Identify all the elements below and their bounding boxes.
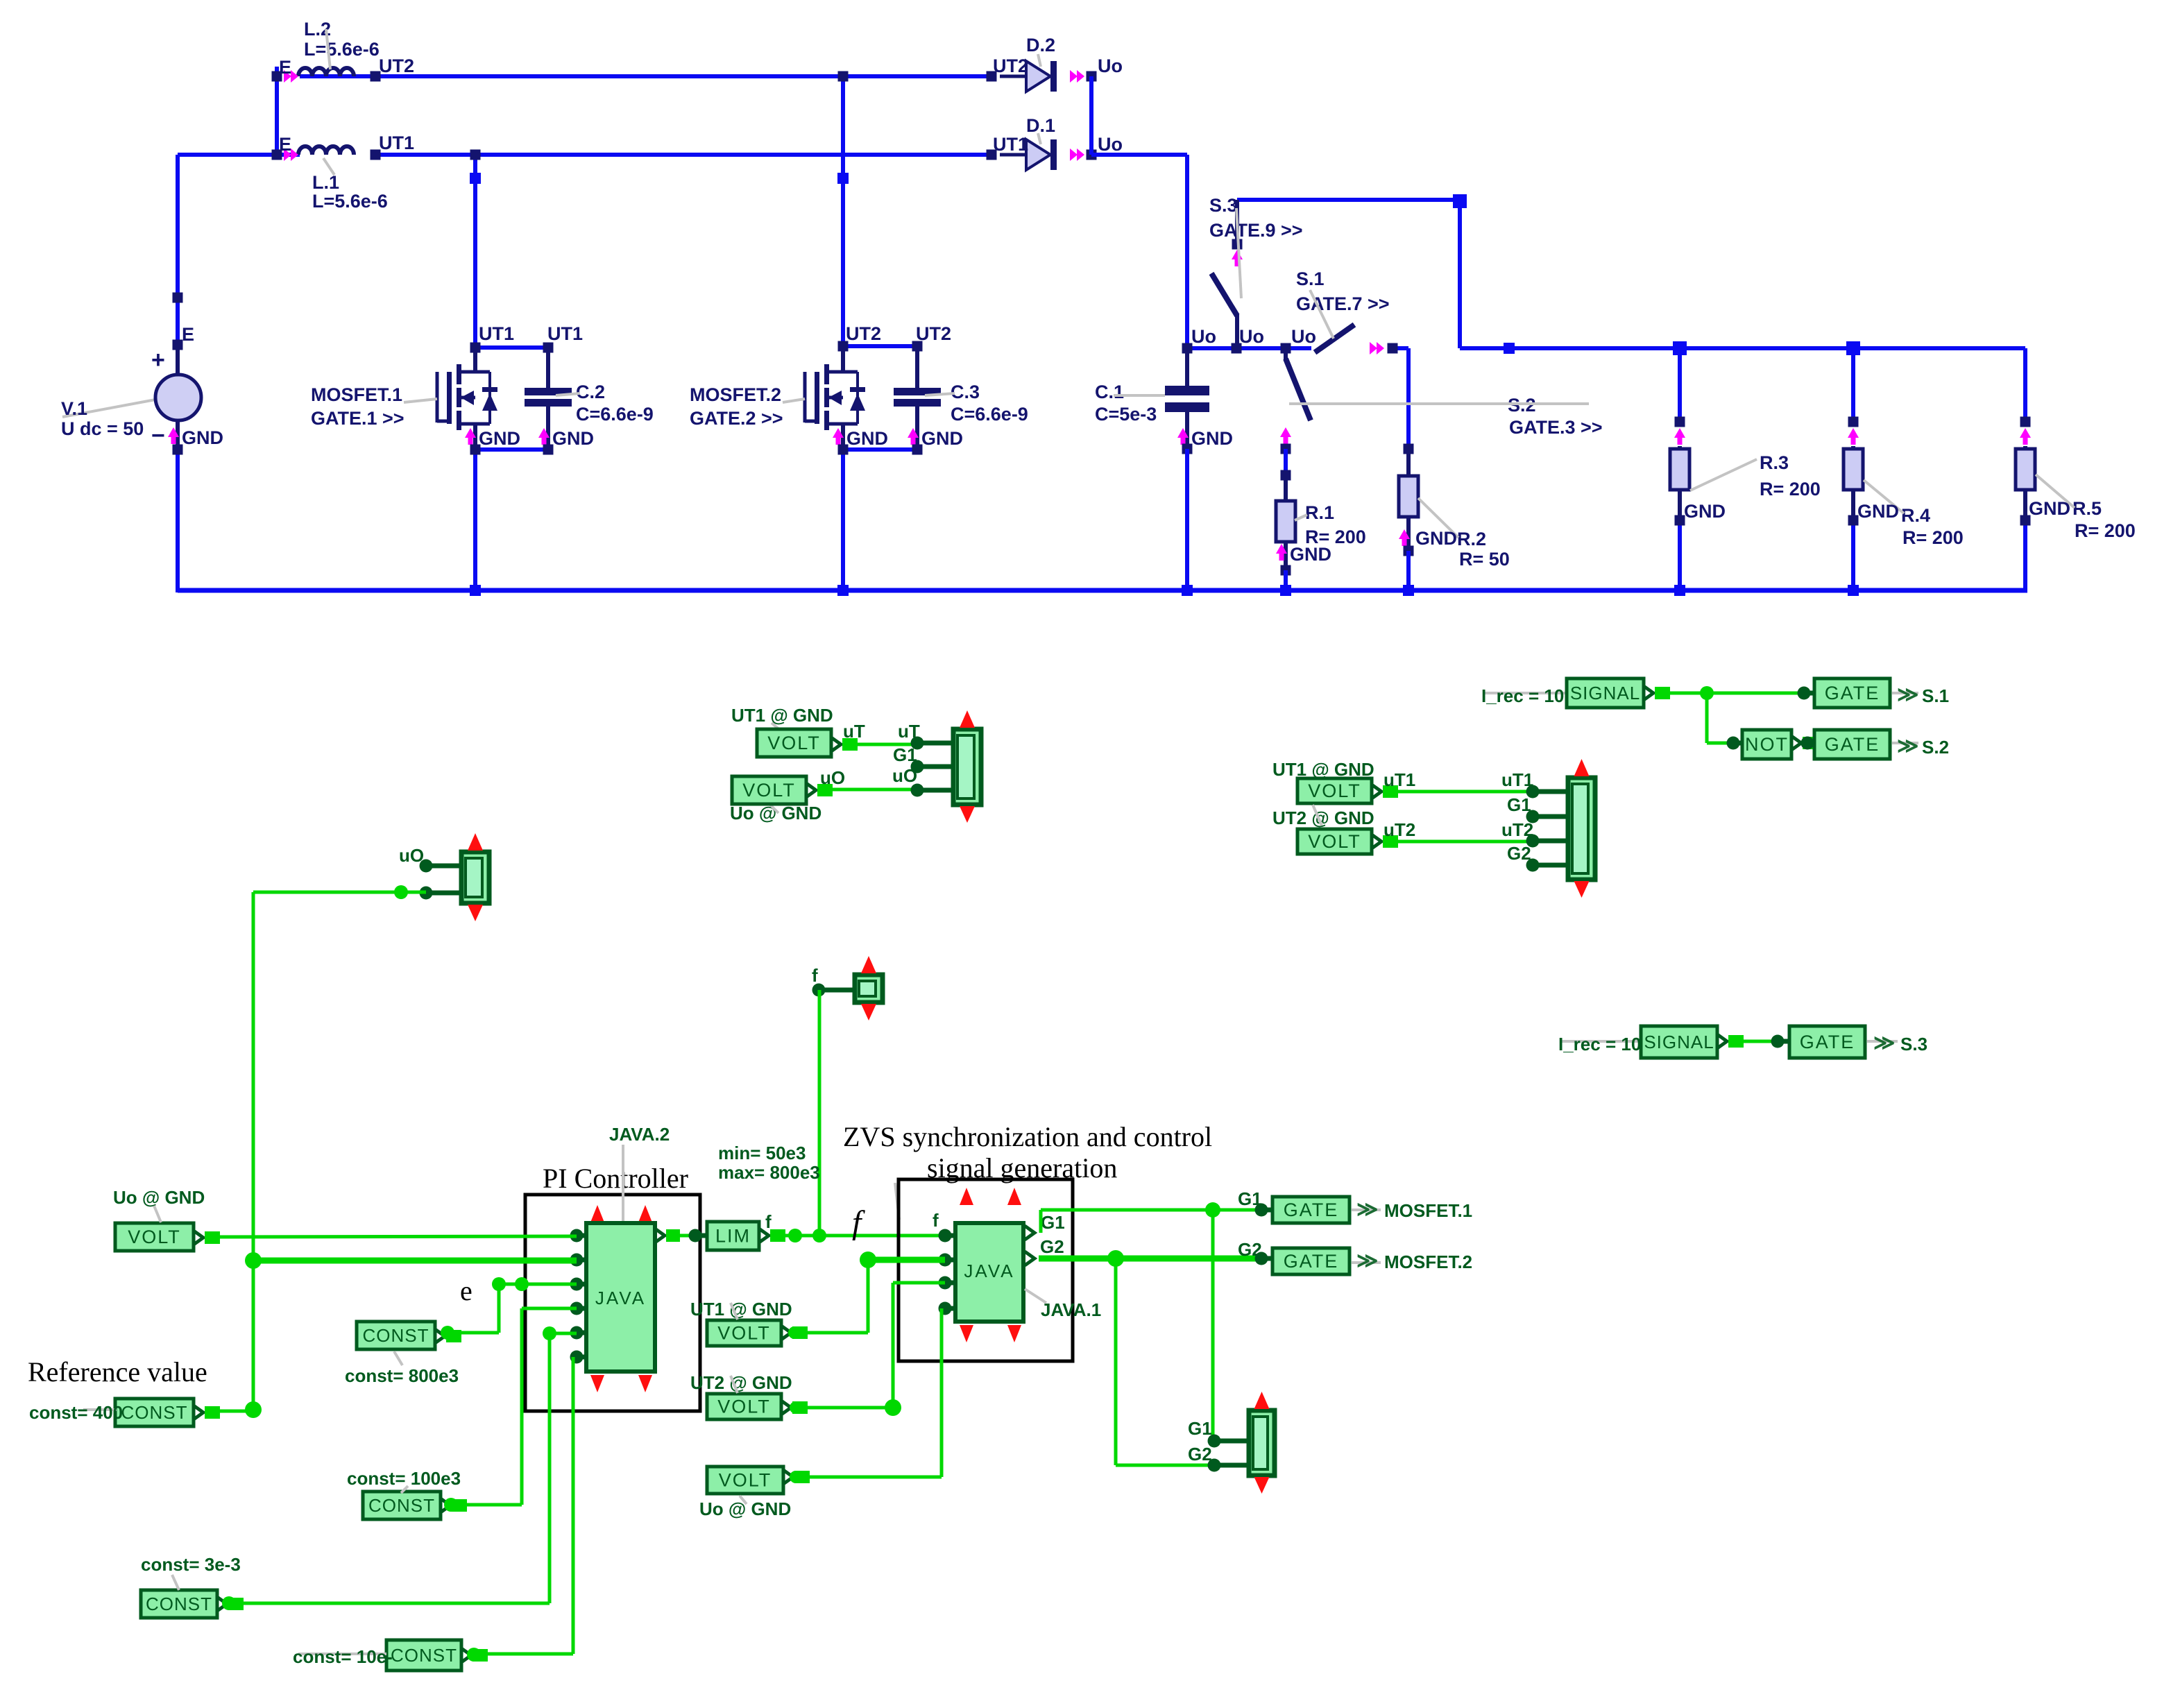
mosfet M2 bbox=[690, 323, 951, 450]
svg-text:I_rec = 10: I_rec = 10 bbox=[1481, 685, 1564, 706]
label to MOSFET2 bbox=[1352, 1249, 1472, 1272]
svg-text:L.1: L.1 bbox=[312, 172, 339, 193]
magenta R5 bbox=[2020, 428, 2031, 445]
ground M1 bbox=[465, 428, 520, 449]
node uO p2 bbox=[420, 887, 462, 900]
svg-text:R.4: R.4 bbox=[1901, 505, 1930, 526]
wire R5 top bbox=[2023, 348, 2027, 422]
node R3 upper bbox=[1675, 417, 1685, 427]
gate block S3 bbox=[1789, 1026, 1865, 1058]
node gate2 in bbox=[1255, 1252, 1273, 1265]
svg-text:L=5.6e-6: L=5.6e-6 bbox=[304, 39, 380, 60]
wire pin4 bbox=[448, 1308, 577, 1505]
wire volt uo out bbox=[783, 1470, 810, 1484]
const block 800e3 bbox=[357, 1322, 435, 1349]
java2 out bbox=[655, 1229, 680, 1242]
node C2 top bbox=[543, 343, 554, 353]
svg-text:UT2 @ GND: UT2 @ GND bbox=[690, 1372, 792, 1393]
scope f bbox=[855, 956, 883, 1020]
node gate S1 in bbox=[1798, 687, 1815, 700]
svg-text:Uo: Uo bbox=[1291, 326, 1316, 347]
label const 3e-3 bbox=[141, 1554, 241, 1590]
svg-text:MOSFET.2: MOSFET.2 bbox=[690, 384, 781, 405]
gate block M2 bbox=[1272, 1248, 1350, 1274]
svg-text:R.2: R.2 bbox=[1457, 529, 1486, 549]
label Uo@GND top bbox=[730, 803, 821, 823]
wire const800 out bbox=[435, 1326, 461, 1343]
node f scope port bbox=[812, 984, 855, 997]
ground R4 bbox=[1857, 501, 1899, 522]
svg-text:≫: ≫ bbox=[1356, 1249, 1378, 1272]
diode D2 bbox=[987, 35, 1123, 92]
label e bbox=[460, 1275, 472, 1306]
svg-text:−: − bbox=[151, 422, 165, 449]
svg-text:Reference value: Reference value bbox=[28, 1356, 207, 1387]
svg-text:UT1: UT1 bbox=[547, 323, 583, 344]
svg-text:MOSFET.1: MOSFET.1 bbox=[1384, 1200, 1472, 1221]
magenta R4 bbox=[1848, 428, 1859, 445]
ground C2 bbox=[538, 428, 594, 449]
node C3 bot bbox=[912, 445, 923, 455]
gate block S2 bbox=[1814, 730, 1890, 759]
svg-text:GATE.1 >>: GATE.1 >> bbox=[311, 408, 405, 429]
wire S2-R1 bbox=[1284, 449, 1288, 475]
node R2 bot bbox=[1404, 546, 1414, 556]
svg-text:E: E bbox=[182, 324, 194, 345]
label R5 bbox=[2036, 475, 2136, 541]
svg-text:GND: GND bbox=[2029, 498, 2070, 519]
svg-text:≫: ≫ bbox=[1897, 683, 1918, 706]
svg-text:R.5: R.5 bbox=[2072, 498, 2102, 519]
svg-text:CONST: CONST bbox=[363, 1325, 429, 1346]
node G1 port top bbox=[893, 744, 953, 774]
svg-text:G1: G1 bbox=[1507, 794, 1531, 815]
signal block S3 bbox=[1641, 1026, 1717, 1058]
label to S1 bbox=[1892, 683, 1949, 706]
svg-text:SIGNAL: SIGNAL bbox=[1570, 683, 1640, 703]
node M1 mid bbox=[470, 173, 481, 184]
wire f up bbox=[818, 990, 821, 1236]
wire uO feed bbox=[253, 885, 426, 899]
wire const100 out bbox=[441, 1498, 467, 1512]
ground R5 bbox=[2029, 498, 2070, 519]
resistor R2 bbox=[1399, 449, 1510, 570]
wire R4 top bbox=[1851, 348, 1855, 422]
svg-text:uT2: uT2 bbox=[1384, 819, 1415, 840]
label PI Controller bbox=[543, 1163, 688, 1194]
svg-text:CONST: CONST bbox=[121, 1402, 188, 1423]
svg-text:UT1: UT1 bbox=[479, 323, 514, 344]
label uO scope bbox=[399, 845, 424, 866]
wire uT1 bbox=[1372, 769, 1533, 799]
wire const3e3 out bbox=[217, 1596, 244, 1611]
capacitor C2 bbox=[525, 348, 654, 450]
pin JAVA.1 in1 bbox=[939, 1229, 956, 1242]
volt block Uo top bbox=[732, 776, 806, 804]
svg-text:GATE: GATE bbox=[1800, 1032, 1855, 1052]
svg-text:D.1: D.1 bbox=[1026, 115, 1055, 136]
svg-text:G1: G1 bbox=[893, 744, 917, 765]
wire const10 out bbox=[461, 1648, 488, 1662]
svg-text:GATE: GATE bbox=[1825, 683, 1880, 703]
ground R2 bbox=[1399, 528, 1457, 549]
svg-text:GATE: GATE bbox=[1825, 734, 1880, 755]
node rail mid bbox=[1504, 343, 1515, 354]
svg-text:VOLT: VOLT bbox=[742, 780, 796, 801]
switch S3 bbox=[1209, 195, 1303, 348]
wire UT1 net bbox=[178, 153, 991, 157]
magenta R3 bbox=[1674, 428, 1685, 445]
switch S2 bbox=[1280, 348, 1603, 444]
svg-text:CONST: CONST bbox=[368, 1495, 435, 1516]
svg-text:D.2: D.2 bbox=[1026, 35, 1055, 55]
wire f bbox=[759, 1229, 940, 1242]
label UT1@GND top bbox=[731, 705, 833, 731]
svg-text:MOSFET.1: MOSFET.1 bbox=[311, 384, 402, 405]
svg-text:Uo: Uo bbox=[1191, 326, 1216, 347]
node M2 drain top bbox=[838, 341, 849, 352]
node M2 src bot bbox=[838, 445, 849, 455]
node C1 rail bbox=[1182, 585, 1193, 596]
gate block S1 bbox=[1814, 678, 1890, 708]
node R4 upper bbox=[1848, 417, 1859, 427]
lim block bbox=[707, 1222, 759, 1250]
node uT2 port bbox=[1526, 835, 1569, 848]
svg-text:C.2: C.2 bbox=[576, 382, 605, 402]
svg-text:E: E bbox=[279, 57, 291, 78]
svg-text:G1: G1 bbox=[1188, 1418, 1212, 1439]
wire G2 bbox=[1039, 1250, 1261, 1267]
svg-text:CONST: CONST bbox=[146, 1594, 212, 1614]
node C1 bot bbox=[1182, 444, 1193, 454]
ground C1 bbox=[1177, 428, 1233, 449]
java1 out G1 bbox=[1025, 1212, 1065, 1240]
const block 3e-3 bbox=[141, 1590, 217, 1618]
wire java1 pin2 bbox=[860, 1252, 945, 1333]
wire uO vertical bbox=[252, 892, 255, 1410]
node G1 scope port bbox=[1188, 1418, 1249, 1448]
svg-text:GND: GND bbox=[1857, 501, 1899, 522]
wire M2 bottom bbox=[843, 450, 917, 590]
resistor R1 bbox=[1276, 475, 1366, 570]
label to S2 bbox=[1892, 735, 1949, 758]
label I_rec S3 bbox=[1558, 1034, 1643, 1054]
svg-text:max= 800e3: max= 800e3 bbox=[718, 1162, 820, 1183]
label R3 bbox=[1690, 452, 1821, 499]
red arrows JAVA2 top bbox=[590, 1205, 652, 1222]
svg-text:VOLT: VOLT bbox=[719, 1470, 772, 1491]
inductor L1 bbox=[279, 133, 414, 212]
volt block Uo left bbox=[115, 1223, 194, 1251]
node R2 rail bbox=[1403, 585, 1414, 596]
svg-text:C=6.6e-9: C=6.6e-9 bbox=[576, 404, 654, 425]
wire volt ut1 out bbox=[781, 1326, 868, 1340]
volt block uT2 bbox=[1297, 829, 1372, 854]
node uT port bbox=[911, 737, 954, 750]
node uT1 port bbox=[1526, 785, 1569, 799]
wire java2-lim bbox=[674, 1234, 695, 1238]
svg-text:VOLT: VOLT bbox=[128, 1227, 181, 1247]
wire G1 down bbox=[1211, 1210, 1215, 1441]
volt block UT2 pi bbox=[707, 1394, 781, 1419]
mosfet M1 bbox=[311, 323, 583, 450]
wire left rail bbox=[176, 155, 180, 592]
svg-text:UT2: UT2 bbox=[846, 323, 881, 344]
label Reference value bbox=[28, 1356, 207, 1387]
label Uo rail bbox=[1191, 326, 1316, 347]
pin JAVA.2 in3 bbox=[570, 1278, 587, 1291]
wire const400 out bbox=[194, 1401, 262, 1419]
svg-text:UT1: UT1 bbox=[993, 134, 1028, 155]
svg-text:JAVA: JAVA bbox=[964, 1261, 1014, 1281]
wire pin6 bbox=[474, 1357, 573, 1654]
wire e node bbox=[448, 1277, 577, 1333]
node R5 upper bbox=[2020, 417, 2031, 427]
node R4 rail bot bbox=[1848, 585, 1859, 596]
svg-text:PI Controller: PI Controller bbox=[543, 1163, 688, 1194]
wire uO top bbox=[806, 765, 917, 797]
label const 400 bbox=[29, 1402, 123, 1423]
volt block uT1 bbox=[1297, 778, 1372, 803]
svg-text:f: f bbox=[765, 1211, 772, 1232]
svg-text:R.3: R.3 bbox=[1760, 452, 1789, 473]
const block 10e-6 bbox=[386, 1640, 461, 1671]
node gate S3 in bbox=[1771, 1035, 1790, 1048]
svg-text:CONST: CONST bbox=[391, 1645, 457, 1666]
resistor R4 bbox=[1844, 446, 1863, 520]
svg-text:S.1: S.1 bbox=[1922, 685, 1949, 706]
node L2 left bbox=[272, 71, 282, 82]
wire signal S3 bbox=[1717, 1034, 1778, 1048]
svg-text:UT2: UT2 bbox=[916, 323, 951, 344]
node S3 corner bbox=[1453, 194, 1467, 208]
wire R3 top bbox=[1678, 348, 1682, 422]
node M1 drain top bbox=[470, 343, 481, 353]
svg-text:UT2: UT2 bbox=[993, 55, 1028, 76]
wire R1 down bbox=[1284, 570, 1288, 590]
wire UT2 net bbox=[277, 67, 991, 155]
wire pin5 bbox=[229, 1326, 577, 1603]
svg-text:G2: G2 bbox=[1188, 1444, 1212, 1464]
node gate S2 in bbox=[1801, 737, 1815, 750]
node uO port bbox=[911, 784, 954, 797]
node L1 right bbox=[371, 150, 381, 160]
svg-text:NOT: NOT bbox=[1745, 734, 1789, 755]
ground M2 bbox=[833, 428, 888, 449]
label const 100e3 bbox=[347, 1468, 461, 1493]
wire NOT out bbox=[1791, 736, 1818, 750]
svg-text:GATE.3 >>: GATE.3 >> bbox=[1509, 417, 1603, 438]
wire S3 top net bbox=[1237, 200, 2025, 422]
svg-text:f: f bbox=[933, 1210, 939, 1231]
svg-text:GND: GND bbox=[846, 428, 888, 449]
diode D1 bbox=[987, 115, 1123, 170]
wire D1 to C1 bbox=[1091, 155, 1187, 348]
svg-text:R= 50: R= 50 bbox=[1459, 549, 1510, 570]
ground R1 bbox=[1276, 544, 1331, 565]
wire R3 down bbox=[1678, 520, 1682, 590]
ground C3 bbox=[908, 428, 963, 449]
resistor R3 bbox=[1670, 446, 1689, 520]
wire Uo rail bbox=[1187, 348, 1408, 449]
wire C1 down bbox=[1185, 449, 1189, 590]
node R1 rail bbox=[1280, 585, 1291, 596]
label UT2@GND mid bbox=[1272, 805, 1374, 828]
ground R3 bbox=[1684, 501, 1726, 522]
wire java1 pin4 bbox=[796, 1308, 942, 1477]
svg-text:GND: GND bbox=[921, 428, 963, 449]
svg-text:E: E bbox=[279, 134, 291, 155]
scope uO bbox=[461, 833, 489, 921]
node uO p1 bbox=[420, 860, 462, 873]
node M2 rail bbox=[837, 585, 849, 596]
label G1 gate bbox=[1238, 1188, 1262, 1209]
box PI controller bbox=[525, 1195, 700, 1411]
red arrows JAVA2 bottom bbox=[590, 1375, 652, 1392]
label I_rec S1 bbox=[1481, 685, 1567, 706]
node source- bbox=[173, 445, 183, 455]
wire D2-D1 bbox=[1089, 76, 1093, 155]
pin JAVA.1 in4 bbox=[939, 1302, 956, 1315]
wire pin1 bbox=[194, 1231, 577, 1245]
resistor R5 bbox=[2016, 446, 2035, 520]
label Uo@GND pi bbox=[699, 1496, 791, 1519]
inductor L2 bbox=[279, 19, 414, 83]
wire bottom rail bbox=[178, 520, 2027, 590]
node M2 UT2 bbox=[838, 71, 849, 82]
svg-text:GATE.9 >>: GATE.9 >> bbox=[1209, 220, 1303, 241]
label JAVA.2 bbox=[609, 1124, 670, 1222]
node S2 contact bbox=[1281, 444, 1291, 454]
red arrows JAVA1 top bbox=[960, 1188, 1021, 1205]
svg-text:UT2 @ GND: UT2 @ GND bbox=[1272, 808, 1374, 828]
svg-text:C.1: C.1 bbox=[1095, 382, 1124, 402]
scope uT-G1-uO bbox=[953, 710, 981, 823]
wire uT2 bbox=[1372, 819, 1533, 848]
source V.1 Udc=50 bbox=[61, 324, 201, 450]
svg-text:S.2: S.2 bbox=[1922, 737, 1949, 758]
node L1 left bbox=[272, 150, 282, 160]
ground V.1 bbox=[168, 427, 223, 448]
label ZVS line2 bbox=[927, 1152, 1117, 1184]
wire volt ut2 out bbox=[781, 1401, 808, 1415]
svg-text:G2: G2 bbox=[1507, 843, 1531, 864]
pin JAVA.2 in6 bbox=[570, 1351, 587, 1364]
wire M2 drain bbox=[841, 76, 845, 346]
volt block UT1 pi bbox=[707, 1320, 781, 1346]
node M1 rail bbox=[470, 585, 481, 596]
pin JAVA.2 in1 bbox=[570, 1229, 587, 1242]
label to MOSFET1 bbox=[1352, 1198, 1472, 1221]
node E upper bbox=[173, 293, 183, 303]
label const 10e-6 bbox=[293, 1646, 393, 1667]
not block bbox=[1742, 730, 1791, 759]
pin JAVA.1 in2 bbox=[939, 1254, 956, 1267]
node M2 mid bbox=[837, 173, 849, 184]
node S2 rail bbox=[1281, 343, 1291, 354]
svg-text:VOLT: VOLT bbox=[717, 1323, 771, 1344]
svg-text:U dc = 50: U dc = 50 bbox=[61, 418, 144, 439]
svg-text:JAVA.2: JAVA.2 bbox=[609, 1124, 670, 1145]
svg-text:GATE: GATE bbox=[1284, 1251, 1339, 1272]
wire L2 right to D2 bbox=[373, 74, 377, 78]
node R1 bot bbox=[1281, 565, 1291, 576]
svg-text:VOLT: VOLT bbox=[1308, 831, 1361, 852]
pin JAVA.1 in3 bbox=[939, 1276, 956, 1290]
svg-text:Uo @ GND: Uo @ GND bbox=[113, 1187, 205, 1208]
svg-text:S.1: S.1 bbox=[1296, 268, 1325, 289]
node R2 top bbox=[1404, 444, 1414, 454]
svg-text:GND: GND bbox=[1191, 428, 1233, 449]
wire uT bbox=[831, 721, 920, 751]
label Uo@GND left bbox=[113, 1187, 205, 1222]
capacitor C3 bbox=[894, 346, 1028, 450]
java1 out G2 bbox=[1025, 1236, 1064, 1265]
svg-text:uT1: uT1 bbox=[1384, 769, 1415, 790]
svg-text:VOLT: VOLT bbox=[767, 733, 821, 753]
wire java1 pin3 bbox=[796, 1283, 945, 1416]
svg-text:UT1 @ GND: UT1 @ GND bbox=[731, 705, 833, 726]
svg-text:uT: uT bbox=[843, 721, 865, 742]
svg-text:GND: GND bbox=[552, 428, 594, 449]
svg-text:const= 400: const= 400 bbox=[29, 1402, 123, 1423]
svg-text:UT1 @ GND: UT1 @ GND bbox=[690, 1299, 792, 1320]
wire R4 down bbox=[1851, 520, 1855, 590]
node R4 bot bbox=[1848, 515, 1859, 526]
java block JAVA.2 bbox=[586, 1223, 655, 1372]
volt block Uo pi bbox=[707, 1467, 783, 1494]
svg-text:C=5e-3: C=5e-3 bbox=[1095, 404, 1157, 425]
svg-text:R= 200: R= 200 bbox=[1902, 527, 1964, 548]
svg-text:SIGNAL: SIGNAL bbox=[1644, 1032, 1714, 1052]
svg-text:JAVA.1: JAVA.1 bbox=[1041, 1299, 1101, 1320]
label const 800e3 bbox=[345, 1351, 459, 1386]
node S3 rail bbox=[1232, 343, 1242, 354]
signal block S1 bbox=[1567, 678, 1644, 708]
svg-text:LIM: LIM bbox=[715, 1226, 751, 1247]
wire G1 bbox=[1041, 1202, 1261, 1233]
svg-text:ZVS synchronization and contro: ZVS synchronization and control bbox=[843, 1121, 1212, 1152]
svg-text:≫: ≫ bbox=[1873, 1032, 1895, 1054]
pin JAVA.2 in4 bbox=[570, 1302, 587, 1315]
node R4 rail bbox=[1846, 341, 1860, 355]
capacitor C1 bbox=[1095, 343, 1209, 450]
wire G2 down bbox=[1116, 1258, 1214, 1465]
label f after lim bbox=[765, 1211, 772, 1232]
svg-text:C=6.6e-9: C=6.6e-9 bbox=[951, 404, 1028, 425]
wire to NOT bbox=[1707, 693, 1733, 743]
label UT1@GND pi bbox=[690, 1299, 792, 1320]
svg-text:VOLT: VOLT bbox=[717, 1397, 771, 1417]
svg-text:V.1: V.1 bbox=[61, 398, 87, 419]
const block 400 bbox=[115, 1399, 194, 1426]
label f italic bbox=[852, 1204, 865, 1241]
node L2 right bbox=[371, 71, 381, 82]
label min max bbox=[718, 1143, 899, 1220]
svg-text:GND: GND bbox=[479, 428, 520, 449]
label ZVS line1 bbox=[843, 1121, 1212, 1152]
svg-text:GND: GND bbox=[1684, 501, 1726, 522]
svg-text:Uo: Uo bbox=[1098, 134, 1123, 155]
label R4 bbox=[1864, 480, 1964, 548]
node R5 bot bbox=[2020, 515, 2031, 526]
label UT2@GND pi bbox=[690, 1372, 792, 1393]
svg-text:VOLT: VOLT bbox=[1308, 780, 1361, 801]
const block 100e3 bbox=[363, 1492, 441, 1519]
wire R2 down bbox=[1406, 551, 1411, 590]
svg-text:MOSFET.2: MOSFET.2 bbox=[1384, 1252, 1472, 1272]
svg-text:≫: ≫ bbox=[1897, 735, 1918, 758]
